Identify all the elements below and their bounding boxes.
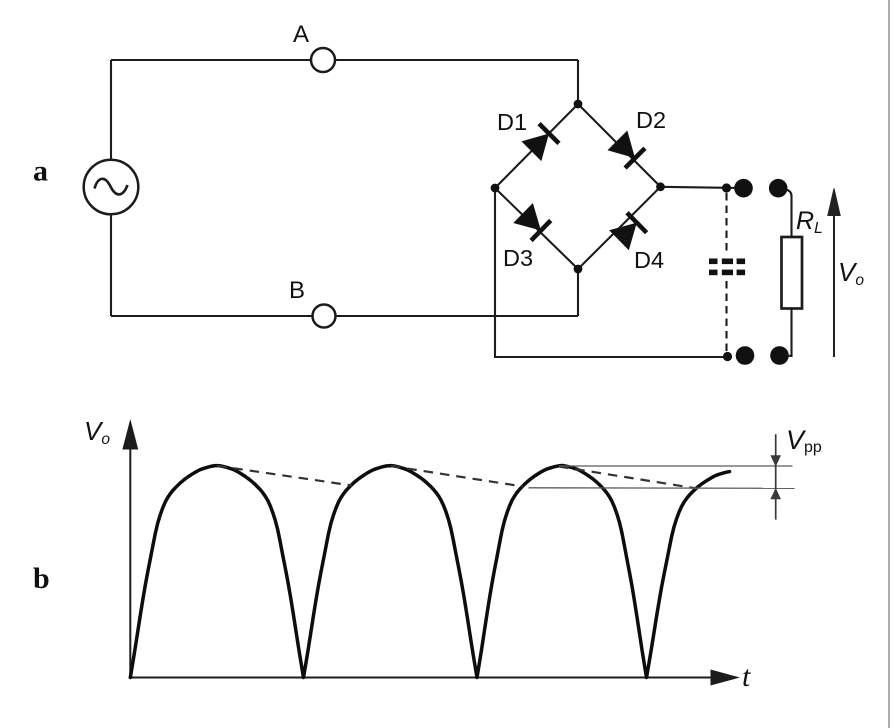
source V1 (AC)	[84, 160, 139, 215]
arrow Vo (output voltage)	[828, 189, 840, 358]
svg-text:D2: D2	[636, 107, 666, 133]
node right junction	[656, 182, 665, 191]
svg-text:a: a	[33, 155, 48, 188]
diode D1	[521, 124, 558, 161]
wire load branch	[786, 190, 792, 357]
svg-text:Vo: Vo	[84, 416, 110, 448]
wire top from source to corner	[111, 60, 578, 104]
ref line peak level	[559, 465, 793, 467]
svg-text:t: t	[742, 660, 751, 693]
scan edge line	[888, 0, 890, 728]
svg-text:b: b	[33, 562, 50, 595]
dashed ripple decay 2	[391, 466, 523, 487]
wire left vertical (source leads)	[110, 60, 112, 316]
capacitor C (dashed, optional) lead	[725, 193, 727, 352]
svg-text:D4: D4	[634, 247, 664, 273]
axis y (Vo)	[123, 421, 138, 678]
wire left-node drop and bottom rail to output	[495, 188, 727, 357]
svg-text:D1: D1	[497, 109, 527, 135]
svg-text:Vo: Vo	[838, 257, 864, 289]
node bottom junction	[574, 265, 583, 274]
node output junction bottom	[723, 352, 732, 361]
svg-text:Vpp: Vpp	[786, 425, 822, 456]
dashed ripple decay 3	[559, 467, 697, 489]
arrow Vpp dimension	[771, 434, 780, 519]
capacitor C plates	[709, 259, 745, 276]
diode D4	[609, 213, 646, 250]
terminal plug dot bottom-left	[736, 346, 755, 365]
dashed ripple decay 1	[217, 466, 352, 486]
svg-text:D3: D3	[503, 245, 533, 271]
resistor RL body	[782, 237, 803, 309]
ref line trough level	[529, 487, 795, 490]
wire bottom B rail	[111, 269, 578, 316]
axis t	[130, 670, 738, 685]
svg-text:A: A	[293, 21, 309, 48]
terminal A	[311, 48, 335, 72]
node left junction	[491, 184, 500, 193]
wire right node to output terminal	[661, 187, 744, 188]
bridge diamond wires	[495, 104, 661, 269]
terminal plug dot top-left	[734, 179, 753, 198]
curve Vo(t) rectified waveform	[130, 466, 729, 678]
svg-text:RL: RL	[796, 207, 823, 237]
node top junction	[574, 100, 583, 109]
diode D2	[607, 130, 644, 167]
terminal plug dot top-right	[769, 179, 788, 198]
diode D3	[513, 203, 550, 240]
node output junction top	[722, 183, 731, 192]
terminal B	[313, 305, 336, 328]
svg-text:B: B	[289, 277, 305, 304]
terminal plug dot bottom-right	[770, 346, 789, 365]
